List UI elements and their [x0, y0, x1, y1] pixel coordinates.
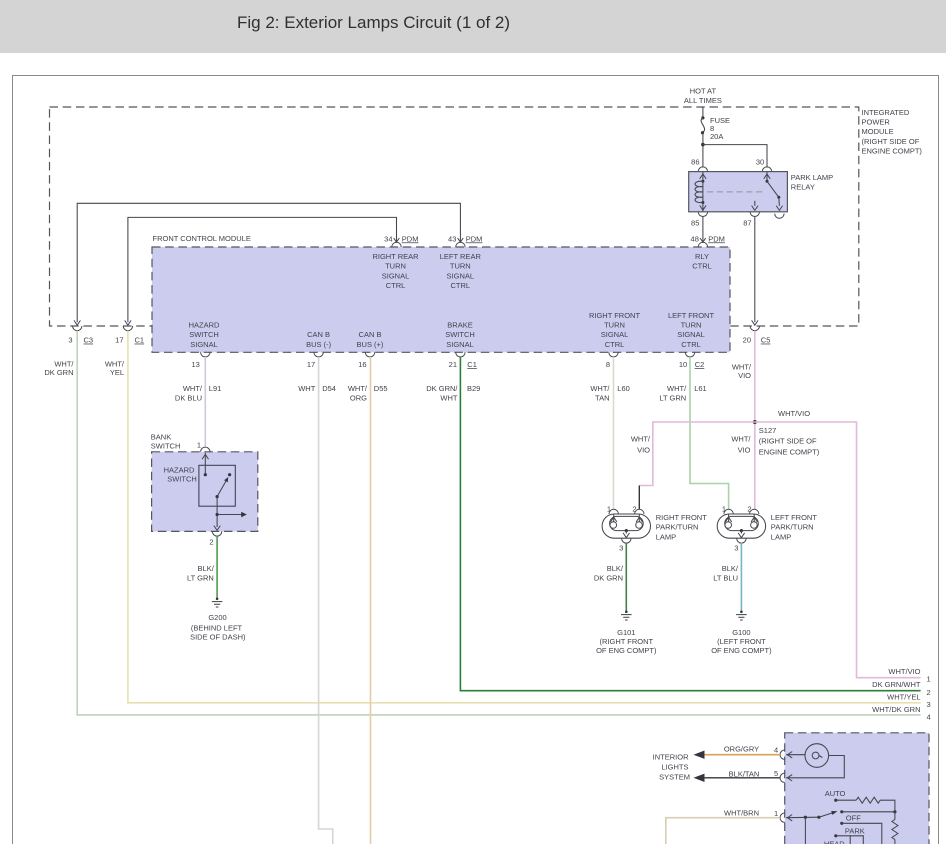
svg-text:WHT/: WHT/ [54, 359, 74, 368]
relay switch wiper [767, 181, 783, 210]
svg-text:13: 13 [191, 360, 199, 369]
wire label WHT/LT GRN with circuit L61 [659, 384, 706, 403]
junction node below fuse [701, 143, 705, 147]
svg-text:L60: L60 [617, 384, 630, 393]
wire branch to relay pin 30 [703, 145, 767, 168]
PARK contact branch [834, 834, 863, 844]
svg-text:5: 5 [774, 769, 778, 778]
headlamp switch pin 5 connector arc [780, 773, 785, 782]
svg-text:VIO: VIO [637, 445, 650, 454]
svg-text:LT GRN: LT GRN [187, 573, 214, 582]
svg-text:1: 1 [197, 441, 201, 450]
svg-text:CTRL: CTRL [681, 340, 701, 349]
svg-text:C5: C5 [761, 336, 771, 345]
wire WHT/VIO branch from S127 to right edge point 1 [755, 422, 921, 678]
pin 3 C3 labels [68, 336, 93, 345]
wire DK GRN/WHT from FCM 21 to right edge [460, 357, 920, 691]
svg-text:TURN: TURN [681, 321, 702, 330]
svg-text:HEAD: HEAD [824, 840, 845, 844]
svg-text:OFF: OFF [846, 814, 861, 823]
svg-text:3: 3 [619, 544, 623, 553]
pin 20 C5 labels [743, 336, 771, 345]
integrated power module dashed box [50, 107, 859, 326]
right lamp common output [623, 529, 629, 538]
svg-text:RIGHT REAR: RIGHT REAR [372, 252, 419, 261]
right front park/turn lamp body [602, 514, 650, 538]
wire from hot feed down to fuse [702, 107, 704, 118]
svg-text:WHT/: WHT/ [732, 363, 752, 372]
svg-text:WHT/: WHT/ [348, 384, 368, 393]
svg-text:C1: C1 [467, 360, 477, 369]
pin 87 connector arc [750, 212, 759, 217]
svg-text:WHT: WHT [440, 394, 457, 403]
svg-text:BLK/TAN: BLK/TAN [729, 770, 760, 779]
left front park/turn lamp label [771, 513, 818, 541]
svg-text:VIO: VIO [738, 445, 751, 454]
svg-text:G101: G101 [617, 628, 635, 637]
FCM label CAN B BUS (-) [306, 330, 332, 349]
svg-text:BUS (+): BUS (+) [357, 340, 384, 349]
svg-text:CTRL: CTRL [386, 281, 406, 290]
svg-text:HAZARD: HAZARD [189, 321, 220, 330]
svg-text:2: 2 [209, 538, 213, 547]
svg-text:SWITCH: SWITCH [189, 330, 219, 339]
svg-text:RELAY: RELAY [791, 183, 815, 192]
svg-text:3: 3 [68, 336, 72, 345]
svg-text:WHT/VIO: WHT/VIO [778, 409, 810, 418]
svg-text:BLK/: BLK/ [607, 564, 624, 573]
svg-text:HAZARD: HAZARD [164, 465, 195, 474]
svg-text:Fig 2: Exterior Lamps Circuit: Fig 2: Exterior Lamps Circuit (1 of 2) [237, 13, 510, 32]
svg-text:SYSTEM: SYSTEM [659, 773, 690, 782]
svg-text:PARK/TURN: PARK/TURN [656, 523, 699, 532]
svg-text:ENGINE COMPT): ENGINE COMPT) [759, 447, 820, 456]
svg-text:ORG: ORG [350, 394, 367, 403]
wire label WHT/VIO below pin 20 [732, 363, 752, 381]
svg-text:4: 4 [774, 746, 778, 755]
svg-text:SWITCH: SWITCH [445, 330, 475, 339]
right front park/turn lamp label [656, 513, 708, 541]
title header band [0, 0, 946, 53]
FCM bottom pin 8 connector arc [609, 352, 618, 357]
svg-text:G200: G200 [208, 613, 226, 622]
wire BLK/LT GRN to G200 [216, 536, 218, 598]
right lamp pin 2 entry arrow [636, 514, 642, 522]
svg-text:86: 86 [691, 157, 699, 166]
left lamp pin 1 connector arc [724, 509, 733, 514]
ground G100 labels [711, 628, 772, 655]
svg-text:ALL TIMES: ALL TIMES [684, 96, 722, 105]
svg-text:AUTO: AUTO [825, 789, 846, 798]
svg-text:1: 1 [774, 809, 778, 818]
wire ORG/GRY to interior lights [696, 754, 780, 756]
svg-text:WHT/: WHT/ [105, 359, 125, 368]
svg-text:SIGNAL: SIGNAL [447, 271, 475, 280]
svg-text:D54: D54 [322, 384, 336, 393]
FCM label RIGHT REAR TURN SIGNAL CTRL [372, 252, 419, 290]
svg-text:CTRL: CTRL [451, 281, 471, 290]
svg-text:SIGNAL: SIGNAL [677, 330, 705, 339]
wire label DK GRN/WHT with circuit B29 [426, 384, 480, 403]
svg-text:FRONT CONTROL MODULE: FRONT CONTROL MODULE [153, 234, 251, 243]
wire label WHT/DK BLU with circuit L91 [175, 384, 221, 403]
svg-text:PARK/TURN: PARK/TURN [771, 523, 814, 532]
ground G200 [212, 598, 223, 608]
svg-text:SIGNAL: SIGNAL [190, 340, 218, 349]
svg-text:LEFT REAR: LEFT REAR [440, 252, 482, 261]
svg-text:1: 1 [927, 675, 931, 684]
svg-text:LEFT FRONT: LEFT FRONT [771, 513, 818, 522]
svg-text:S127: S127 [759, 426, 777, 435]
left front park/turn lamp body [717, 514, 765, 538]
hazard switch output path [214, 497, 220, 531]
FCM label HAZARD SWITCH SIGNAL [189, 321, 220, 349]
wire relay 85 to FCM pin 48 [700, 217, 706, 243]
svg-text:87: 87 [743, 219, 751, 228]
svg-text:SIGNAL: SIGNAL [382, 271, 410, 280]
left lamp filament loops [725, 522, 757, 529]
FCM label RLY CTRL [692, 252, 712, 271]
wire WHT/VIO from IPM pin 20 through S127 to left lamp pin 2 [754, 331, 756, 510]
svg-text:WHT: WHT [298, 384, 315, 393]
wire label WHT/ORG with circuit D55 [348, 384, 388, 403]
splice S127 [753, 420, 757, 424]
svg-text:MODULE: MODULE [862, 127, 894, 136]
svg-text:DK GRN/WHT: DK GRN/WHT [872, 680, 921, 689]
left lamp pin 2 connector arc [750, 509, 759, 514]
wire label WHT/YEL left [105, 359, 125, 377]
IPM pin 20 connector arc [750, 326, 759, 331]
wire WHT/TAN from FCM 8 to right lamp pin 1 [613, 357, 615, 509]
wire WHT/VIO branch from S127 to right lamp pin 2 [639, 422, 755, 486]
svg-text:OF ENG COMPT): OF ENG COMPT) [711, 646, 772, 655]
wire IPM internal left 2: pin17 up right down to FCM 34 [125, 217, 400, 325]
svg-text:WHT/YEL: WHT/YEL [887, 693, 920, 702]
wire BLK/TAN to interior lights [696, 777, 780, 779]
svg-text:WHT/: WHT/ [631, 435, 651, 444]
wire fuse to junction [702, 133, 704, 168]
svg-text:RIGHT FRONT: RIGHT FRONT [656, 513, 708, 522]
wire label BLK/LT BLU [713, 564, 739, 582]
pin 85 connector arc [698, 212, 707, 217]
node HOT AT ALL TIMES [684, 87, 722, 106]
wire label WHT/VIO near right lamp [631, 435, 651, 455]
svg-text:WHT/: WHT/ [667, 384, 687, 393]
FCM label RIGHT FRONT TURN SIGNAL CTRL [589, 311, 641, 349]
hazard switch wiper [216, 477, 229, 498]
svg-text:(LEFT FRONT: (LEFT FRONT [717, 637, 766, 646]
svg-text:LAMP: LAMP [771, 532, 791, 541]
relay switch entry pin 30 [764, 172, 770, 183]
wire label WHT/DK GRN left [44, 359, 74, 377]
svg-text:L91: L91 [209, 384, 222, 393]
svg-text:34: 34 [384, 234, 392, 243]
bank switch label [151, 433, 181, 451]
svg-text:20A: 20A [710, 132, 723, 141]
relay coil entry wire pin 86 [700, 172, 706, 183]
wire BLK/LT BLU to G100 [740, 543, 742, 611]
bank switch box [152, 452, 258, 532]
ground G101 [621, 611, 632, 621]
svg-text:LAMP: LAMP [656, 532, 676, 541]
IPM pin 17 connector arc [123, 326, 132, 331]
front control module box [152, 247, 730, 352]
right lamp filament loops [610, 522, 642, 529]
svg-text:BRAKE: BRAKE [447, 321, 472, 330]
svg-text:DK GRN: DK GRN [594, 573, 623, 582]
svg-text:2: 2 [927, 688, 931, 697]
right front park/turn lamp pin labels [607, 504, 637, 513]
wire WHT from FCM 17 to bottom edge [319, 357, 333, 844]
wire WHT/DK GRN from IPM pin 3 to right edge [77, 331, 920, 715]
hazard switch label [164, 465, 197, 483]
svg-text:TURN: TURN [604, 321, 625, 330]
svg-text:C2: C2 [695, 360, 705, 369]
svg-text:17: 17 [307, 360, 315, 369]
svg-text:TURN: TURN [450, 262, 471, 271]
dropping resistor vertical [892, 812, 898, 844]
svg-text:LT GRN: LT GRN [659, 394, 686, 403]
AUTO contact and resistor [834, 797, 895, 812]
unlabeled relay contact connector arc [775, 214, 784, 219]
svg-text:ORG/GRY: ORG/GRY [724, 745, 759, 754]
arrow to interior lights system bottom [694, 774, 705, 782]
wire label WHT with circuit D54 [298, 384, 336, 393]
svg-text:4: 4 [927, 713, 931, 722]
FCM bottom pin 16 connector arc [365, 352, 374, 357]
svg-text:SWITCH: SWITCH [151, 441, 181, 450]
wire BLK/DK GRN to G101 [625, 543, 627, 611]
svg-text:WHT/VIO: WHT/VIO [888, 667, 920, 676]
left lamp pin 2 entry arrow [751, 514, 757, 522]
svg-text:C1: C1 [135, 336, 145, 345]
bank switch pin 2 connector arc [212, 531, 221, 536]
hazard switch inner box [199, 465, 235, 506]
headlamp switch pin 1 internal wire [786, 815, 821, 821]
wire pin 4 to bulb [786, 752, 805, 758]
svg-text:INTEGRATED: INTEGRATED [862, 108, 910, 117]
svg-text:TURN: TURN [385, 262, 406, 271]
headlamp switch pin 1 connector arc [780, 813, 785, 822]
svg-text:PDM: PDM [402, 234, 419, 243]
svg-text:3: 3 [927, 700, 931, 709]
svg-text:(RIGHT SIDE OF: (RIGHT SIDE OF [759, 437, 817, 446]
wire WHT/ORG from FCM 16 to bottom edge [370, 357, 372, 844]
svg-text:SIGNAL: SIGNAL [601, 330, 629, 339]
svg-text:RIGHT FRONT: RIGHT FRONT [589, 311, 641, 320]
svg-text:CAN B: CAN B [359, 330, 382, 339]
FCM label LEFT REAR TURN SIGNAL CTRL [440, 252, 482, 290]
headlamp switch wiper [819, 810, 844, 817]
svg-text:PARK: PARK [845, 827, 865, 836]
svg-text:BUS (-): BUS (-) [306, 340, 332, 349]
pin 17 C1 labels [115, 336, 144, 345]
svg-text:8: 8 [606, 360, 610, 369]
svg-text:VIO: VIO [738, 371, 751, 380]
right lamp pin 1 connector arc [609, 509, 618, 514]
svg-text:DK GRN/: DK GRN/ [426, 384, 458, 393]
FCM bottom pin 13 connector arc [201, 352, 210, 357]
wiper common rail to right [842, 811, 895, 813]
svg-text:21: 21 [449, 360, 457, 369]
svg-text:30: 30 [756, 157, 764, 166]
panel lamp bulb inside headlamp switch [805, 744, 829, 768]
FCM bottom pin 21 connector arc [456, 352, 465, 357]
wire label BLK/DK GRN [594, 564, 624, 582]
left front park/turn lamp pin labels [722, 504, 752, 513]
svg-text:DK GRN: DK GRN [44, 368, 73, 377]
svg-text:43: 43 [448, 234, 456, 243]
svg-text:20: 20 [743, 336, 751, 345]
FCM label CAN B BUS (+) [357, 330, 384, 349]
pin 10 C2 labels [679, 360, 704, 369]
wire bulb to pin 5 [786, 756, 844, 782]
svg-text:HOT AT: HOT AT [690, 87, 717, 96]
wire label WHT/TAN with circuit L60 [590, 384, 629, 403]
FCM pin 48 PDM labels [691, 234, 725, 243]
wire black segment to right lamp pin 2 [638, 486, 640, 510]
FCM pin 34 PDM labels [384, 234, 418, 243]
left lamp common output [738, 529, 744, 538]
svg-text:LIGHTS: LIGHTS [661, 762, 688, 771]
left lamp pin 3 connector arc [737, 538, 746, 543]
IPM pin 3 connector arc [73, 326, 82, 331]
svg-text:LEFT FRONT: LEFT FRONT [668, 311, 715, 320]
bank switch pin 1 connector arc [201, 447, 210, 452]
wire WHT/DK BLU from FCM 13 to hazard switch [204, 357, 206, 446]
park lamp relay label [791, 173, 833, 192]
svg-text:17: 17 [115, 336, 123, 345]
svg-text:L61: L61 [694, 384, 707, 393]
relay contact 87 arrow [752, 201, 758, 211]
ground G101 labels [596, 628, 657, 655]
svg-text:SIGNAL: SIGNAL [446, 340, 474, 349]
rail junction node [893, 810, 896, 813]
FCM label BRAKE SWITCH SIGNAL [445, 321, 475, 349]
svg-text:85: 85 [691, 219, 699, 228]
svg-text:(RIGHT SIDE OF: (RIGHT SIDE OF [862, 137, 920, 146]
svg-text:PARK LAMP: PARK LAMP [791, 173, 833, 182]
svg-text:CTRL: CTRL [692, 262, 712, 271]
left lamp pin 1 entry arrow [725, 514, 731, 522]
hazard switch entry wire pin 1 [202, 453, 208, 477]
OFF contact branch [840, 822, 882, 844]
svg-text:WHT/: WHT/ [590, 384, 610, 393]
FCM pin 48 connector arc [698, 242, 707, 247]
svg-text:3: 3 [734, 544, 738, 553]
FCM bottom pin 17 connector arc [314, 352, 323, 357]
splice S127 labels [759, 426, 820, 456]
arrow to interior lights system top [694, 751, 705, 759]
svg-text:10: 10 [679, 360, 687, 369]
FCM pin 43 PDM labels [448, 234, 482, 243]
pin 21 C1 labels [449, 360, 477, 369]
svg-text:YEL: YEL [110, 368, 124, 377]
svg-text:SIDE OF DASH): SIDE OF DASH) [190, 632, 246, 641]
ground G200 labels [190, 613, 246, 641]
svg-text:ENGINE COMPT): ENGINE COMPT) [862, 146, 923, 155]
svg-text:RLY: RLY [695, 252, 709, 261]
interior lights system label [653, 753, 690, 782]
wire relay 87 to IPM pin 20 [752, 217, 758, 326]
svg-text:BLK/: BLK/ [722, 564, 739, 573]
right lamp inner outline [610, 516, 644, 530]
svg-text:48: 48 [691, 234, 699, 243]
hazard switch branch arrow right [217, 512, 247, 517]
right lamp pin 2 connector arc [635, 509, 644, 514]
svg-text:CAN B: CAN B [307, 330, 330, 339]
wire IPM internal left 1: pin3 up right down to FCM 43 [74, 203, 463, 325]
headlamp switch module box [785, 733, 929, 844]
FCM pin 34 connector arc [392, 242, 401, 247]
svg-text:PDM: PDM [466, 234, 483, 243]
svg-text:BLK/: BLK/ [198, 564, 215, 573]
FCM pin 43 connector arc [456, 242, 465, 247]
right lamp pin 3 connector arc [622, 538, 631, 543]
svg-text:WHT/: WHT/ [731, 435, 751, 444]
svg-text:(RIGHT FRONT: (RIGHT FRONT [599, 637, 653, 646]
FCM label LEFT FRONT TURN SIGNAL CTRL [668, 311, 715, 349]
svg-text:G100: G100 [732, 628, 750, 637]
relay coil exit wire pin 85 [700, 201, 706, 211]
wire WHT/LT GRN from FCM 10 to left lamp pin 1 [690, 357, 729, 509]
svg-text:POWER: POWER [862, 118, 891, 127]
ground G100 [736, 611, 747, 621]
svg-text:INTERIOR: INTERIOR [653, 753, 689, 762]
right lamp pin 1 entry arrow [611, 514, 617, 522]
headlamp switch feed down [804, 817, 806, 844]
relay mechanical link dashed [707, 191, 763, 193]
svg-text:D55: D55 [374, 384, 388, 393]
FCM bottom pin 10 connector arc [685, 352, 694, 357]
svg-text:BANK: BANK [151, 433, 171, 442]
left lamp inner outline [725, 516, 759, 530]
svg-text:LT BLU: LT BLU [713, 573, 738, 582]
svg-text:B29: B29 [467, 384, 480, 393]
wire WHT/BRN from bottom edge to pin 1 [666, 818, 780, 844]
svg-text:DK BLU: DK BLU [175, 394, 202, 403]
integrated power module label [862, 108, 923, 155]
relay coil [695, 181, 703, 202]
svg-text:16: 16 [358, 360, 366, 369]
pin 30 connector arc [762, 167, 771, 172]
headlamp switch pin 4 connector arc [780, 750, 785, 759]
fuse 8 20A [701, 116, 730, 141]
svg-text:SWITCH: SWITCH [167, 475, 197, 484]
svg-text:C3: C3 [84, 336, 94, 345]
svg-text:TAN: TAN [595, 394, 609, 403]
svg-text:OF ENG COMPT): OF ENG COMPT) [596, 646, 657, 655]
svg-text:WHT/: WHT/ [183, 384, 203, 393]
wire label WHT/VIO left of S127 [731, 435, 751, 455]
park lamp relay box [689, 172, 788, 212]
wire WHT/YEL from IPM pin 17 to right edge [128, 331, 921, 703]
hazard switch contact 2 [228, 473, 231, 476]
pin 86 connector arc [698, 167, 707, 172]
svg-text:WHT/BRN: WHT/BRN [724, 808, 759, 817]
svg-text:PDM: PDM [708, 234, 725, 243]
svg-text:(BEHIND LEFT: (BEHIND LEFT [191, 623, 243, 632]
wire label BLK/LT GRN [187, 564, 215, 582]
svg-text:CTRL: CTRL [605, 340, 625, 349]
svg-text:WHT/DK GRN: WHT/DK GRN [872, 705, 920, 714]
